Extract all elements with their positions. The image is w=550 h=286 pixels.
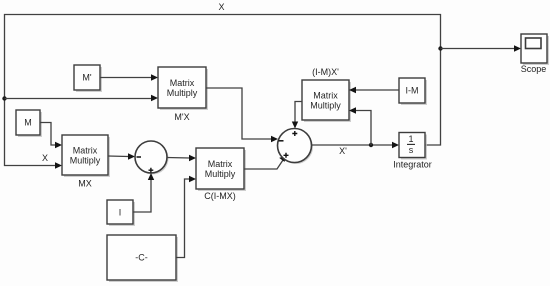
svg-text:Integrator: Integrator	[393, 160, 432, 170]
svg-text:I: I	[119, 208, 122, 218]
wire X branch to M'X lower input	[5, 95, 159, 101]
svg-text:Matrix: Matrix	[208, 159, 233, 169]
svg-text:C(I-MX): C(I-MX)	[204, 191, 236, 201]
wire C(I-MX) output to sum2 diagonal + input	[244, 156, 287, 170]
svg-text:Matrix: Matrix	[313, 91, 338, 101]
wire M' output to M'X upper input	[100, 74, 158, 80]
wire sum2 output to Integrator	[312, 142, 400, 148]
block C(I-MX) Matrix Multiply	[196, 148, 246, 191]
svg-text:M'X: M'X	[174, 112, 189, 122]
sum junction S2	[278, 129, 314, 165]
constant block M	[16, 110, 42, 137]
svg-text:X: X	[218, 2, 224, 12]
svg-text:Multiply: Multiply	[70, 156, 101, 166]
block (I-M)X' Matrix Multiply (mirrored)	[302, 80, 351, 122]
svg-text:-C-: -C-	[135, 253, 148, 263]
block Scope	[521, 34, 549, 65]
svg-text:(I-M)X': (I-M)X'	[312, 67, 339, 77]
svg-text:s: s	[409, 145, 414, 155]
block M'X Matrix Multiply	[158, 67, 208, 110]
block MX Matrix Multiply	[62, 135, 110, 177]
svg-text:M': M'	[82, 73, 91, 83]
label (I-M)X'	[312, 67, 339, 77]
wire feedback loop X (integrator output to top, down left side, into MX)	[5, 15, 441, 169]
svg-text:Scope: Scope	[521, 64, 547, 74]
block Integrator	[399, 133, 427, 160]
svg-text:Multiply: Multiply	[205, 169, 236, 179]
junction on left vertical wire (X branch)	[2, 96, 6, 100]
svg-text:M: M	[24, 118, 32, 128]
svg-text:MX: MX	[78, 179, 92, 189]
svg-text:Multiply: Multiply	[167, 88, 198, 98]
wire (I-M)X' output to sum2 top input	[292, 102, 302, 129]
wire I output to sum1 bottom input	[133, 173, 154, 212]
label Scope	[521, 64, 547, 74]
node X top label	[218, 2, 224, 12]
wire X' branch to (I-M)X' lower input	[349, 107, 371, 145]
constant block I-M	[399, 78, 427, 105]
node X label near MX input	[42, 153, 48, 163]
svg-text:X: X	[42, 153, 48, 163]
label M'X	[174, 112, 189, 122]
svg-text:Matrix: Matrix	[73, 146, 98, 156]
wire junction to Scope	[441, 45, 522, 51]
svg-text:1: 1	[408, 134, 413, 144]
label Integrator	[393, 160, 432, 170]
wire sum1 output to C(I-MX) upper input	[167, 155, 196, 161]
svg-text:I-M: I-M	[406, 86, 419, 96]
svg-text:Matrix: Matrix	[170, 78, 195, 88]
svg-text:Multiply: Multiply	[310, 101, 341, 111]
constant block -C-	[107, 235, 178, 282]
wire M'X output to sum2 minus input	[206, 88, 278, 142]
junction on X' wire	[369, 143, 373, 147]
node X' label	[339, 146, 347, 156]
label C(I-MX)	[204, 191, 236, 201]
label MX	[78, 179, 92, 189]
constant block I	[107, 200, 135, 226]
constant block M'	[74, 65, 102, 92]
wire I-M output to (I-M)X' upper input	[349, 87, 399, 93]
junction to Scope branch	[438, 46, 442, 50]
sum junction S1	[135, 141, 169, 175]
svg-text:X': X'	[339, 146, 347, 156]
wire M output to MX upper input	[40, 123, 62, 149]
wire -C- output to C(I-MX) lower input	[176, 176, 196, 258]
wire MX output to sum1	[108, 153, 135, 159]
